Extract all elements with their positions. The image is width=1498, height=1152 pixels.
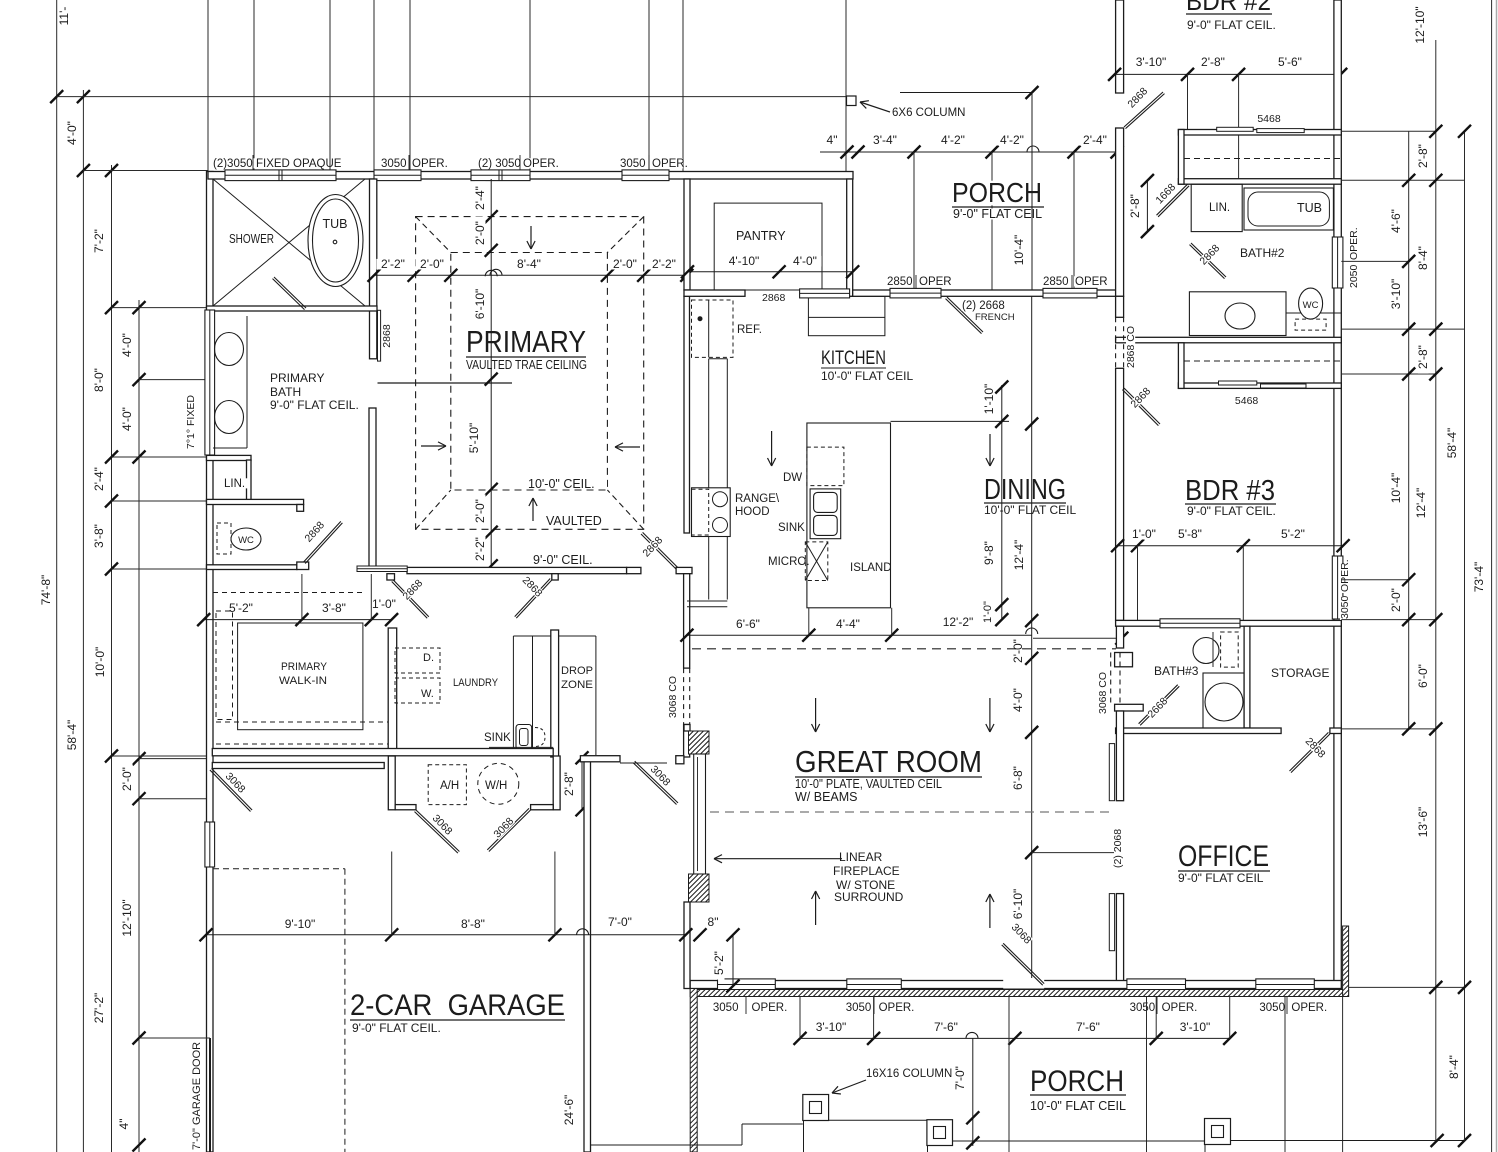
svg-text:2'-8": 2'-8" <box>1201 55 1225 69</box>
svg-text:6'-0": 6'-0" <box>1416 664 1430 688</box>
svg-text:2'-4": 2'-4" <box>92 467 106 491</box>
window label (2)3050 fixed opaque <box>212 158 256 168</box>
svg-text:12'-10": 12'-10" <box>1413 6 1427 43</box>
porch column A <box>803 1095 829 1121</box>
svg-text:SINK: SINK <box>484 732 511 744</box>
svg-text:8'-0": 8'-0" <box>92 368 106 392</box>
office SE hatched pilaster <box>1343 926 1349 997</box>
porch label top <box>951 181 1043 206</box>
great room dashed ceiling line upper <box>692 648 1116 650</box>
breezeway north pier <box>676 756 684 764</box>
dining floor break line <box>891 420 1010 422</box>
svg-text:OPER: OPER <box>1075 276 1108 288</box>
svg-text:REF.: REF. <box>737 324 762 336</box>
svg-text:7'-0" GARAGE DOOR: 7'-0" GARAGE DOOR <box>191 1042 203 1150</box>
bdr3 closet side wall <box>1178 343 1184 389</box>
svg-text:MICRO.: MICRO. <box>768 556 810 568</box>
fireplace hatched pier top <box>689 731 710 754</box>
svg-text:3050: 3050 <box>846 1002 872 1014</box>
great room north dim row <box>687 634 1032 636</box>
svg-text:24'-6": 24'-6" <box>562 1095 576 1126</box>
kitchen arrow <box>771 431 773 466</box>
svg-text:2'-0": 2'-0" <box>420 257 444 271</box>
svg-text:D.: D. <box>423 652 434 664</box>
svg-text:3'-8": 3'-8" <box>92 524 106 548</box>
svg-text:2868: 2868 <box>762 292 786 304</box>
dim 12'-10" <box>122 895 133 941</box>
bdr3 dim row <box>1118 545 1344 547</box>
svg-text:OPER.: OPER. <box>752 1002 788 1014</box>
dim 2'-0" a <box>415 259 448 270</box>
breezeway door 3068 <box>635 761 678 803</box>
refrigerator dashed <box>692 300 734 357</box>
wc room jog <box>297 505 304 512</box>
dim 7'-2" <box>94 224 105 257</box>
svg-text:HOOD: HOOD <box>735 506 770 518</box>
svg-text:OPER.: OPER. <box>1348 227 1360 260</box>
tray corner diagonals <box>416 217 451 253</box>
right dim line 2 <box>1435 40 1437 1141</box>
top window extension lines <box>207 0 209 172</box>
svg-text:SHOWER: SHOWER <box>229 232 274 246</box>
svg-text:OPER.: OPER. <box>523 158 559 170</box>
svg-text:LIN.: LIN. <box>224 478 245 490</box>
svg-text:2'-0": 2'-0" <box>120 767 134 791</box>
wc bottom wall <box>207 565 298 570</box>
west wall pier above fireplace <box>684 725 690 732</box>
svg-text:BATH#3: BATH#3 <box>1154 664 1199 678</box>
window label 3050 oper #2 <box>619 158 645 168</box>
bath3 west wall top <box>1116 626 1123 648</box>
svg-text:6'-10": 6'-10" <box>473 289 487 320</box>
mud vestibule west wall <box>388 756 395 810</box>
laundry sink label <box>483 732 509 742</box>
vaulted label <box>545 516 593 527</box>
garage entry door 3068 <box>212 769 253 811</box>
svg-text:5'-2": 5'-2" <box>1281 527 1305 541</box>
fireplace note <box>838 852 877 863</box>
kitchen north counter <box>808 296 885 335</box>
svg-text:TUB: TUB <box>323 217 348 231</box>
svg-text:PRIMARY: PRIMARY <box>466 324 586 359</box>
pantry label <box>735 231 776 242</box>
lin2 dim 2'-8 <box>1146 181 1148 232</box>
svg-text:3'-4": 3'-4" <box>873 133 897 147</box>
linen closet <box>207 455 252 460</box>
svg-text:3'-8": 3'-8" <box>322 601 346 615</box>
svg-text:PANTRY: PANTRY <box>736 229 786 243</box>
shower room <box>213 179 365 306</box>
svg-text:10'-4": 10'-4" <box>1012 235 1026 266</box>
bdr3 closet rod dashed <box>1184 360 1341 362</box>
svg-text:2'-0": 2'-0" <box>613 257 637 271</box>
wc door 2868 <box>304 521 341 562</box>
office sidelight lower <box>1109 894 1114 951</box>
tray arrows <box>530 226 532 249</box>
storage door 2868 <box>1291 734 1330 773</box>
svg-text:9'-0" FLAT CEIL.: 9'-0" FLAT CEIL. <box>270 398 359 412</box>
pantry south wall <box>684 290 745 296</box>
kitchen window sill north <box>800 289 850 298</box>
tub oval <box>308 195 363 287</box>
svg-text:9'-0" FLAT CEIL.: 9'-0" FLAT CEIL. <box>352 1021 441 1035</box>
svg-text:8'-4": 8'-4" <box>1416 246 1430 270</box>
dim 4'-0" left top <box>67 116 78 149</box>
bdr2 dim extensions <box>1187 74 1189 129</box>
right dim line 3 <box>1464 131 1466 1140</box>
cased opening 3068 CO bath3 <box>1110 653 1112 705</box>
svg-text:3050: 3050 <box>620 158 646 170</box>
bath entry wall line <box>378 382 513 384</box>
bdr3 dim extensions <box>1137 546 1139 621</box>
shower right wall <box>370 179 377 359</box>
svg-text:2'-4": 2'-4" <box>1083 133 1107 147</box>
svg-text:10'-0" PLATE, VAULTED CEIL: 10'-0" PLATE, VAULTED CEIL <box>795 777 942 791</box>
svg-text:OPER: OPER <box>919 276 952 288</box>
svg-text:3'-10": 3'-10" <box>1389 279 1403 310</box>
svg-text:2'-2": 2'-2" <box>381 257 405 271</box>
bath3 sink counter <box>1203 673 1244 730</box>
bath2 vanity <box>1189 292 1286 336</box>
dim 3'-8" <box>94 519 105 552</box>
left margin label 11'-6 remnant <box>59 3 70 30</box>
window 2050 oper east <box>1332 237 1343 288</box>
dining vertical dim 12'-4 etc <box>1031 296 1033 988</box>
dim 4'-0" vanity a <box>122 328 133 361</box>
svg-text:BATH: BATH <box>270 385 301 399</box>
dim 2'-0" b <box>608 259 641 270</box>
bath2 door 2868 <box>1191 243 1226 277</box>
south window office 2 <box>1256 979 1315 990</box>
svg-text:WALK-IN: WALK-IN <box>279 675 327 687</box>
porch column C <box>1205 1119 1231 1145</box>
great room dim extensions <box>808 608 810 635</box>
svg-text:5'-10": 5'-10" <box>467 423 481 454</box>
bath3 label <box>1153 666 1192 677</box>
svg-text:ISLAND: ISLAND <box>850 562 892 574</box>
window 2850 oper left <box>890 288 941 298</box>
hall door to kitchen 2868 <box>641 534 676 569</box>
svg-text:DROP: DROP <box>561 665 593 677</box>
svg-text:10'-4": 10'-4" <box>1389 473 1403 504</box>
window (2)3050 oper <box>471 170 530 181</box>
bdr2 dim row <box>1115 73 1341 75</box>
window 3050 oper east bdr3 <box>1332 556 1343 619</box>
svg-text:9'-8": 9'-8" <box>982 541 996 565</box>
svg-text:9'-0" FLAT CEIL.: 9'-0" FLAT CEIL. <box>1187 504 1276 518</box>
dim 8'-0" <box>94 363 105 396</box>
breezeway stoop <box>591 1144 742 1146</box>
svg-text:GREAT ROOM: GREAT ROOM <box>795 744 982 779</box>
svg-text:7'-0": 7'-0" <box>953 1066 967 1090</box>
svg-text:WC: WC <box>238 535 254 546</box>
svg-text:2868 CO: 2868 CO <box>1125 326 1137 368</box>
primary bedroom label <box>465 328 587 355</box>
svg-text:(2) 2668: (2) 2668 <box>962 300 1005 312</box>
office door label (2)2068 <box>1113 823 1122 869</box>
primary south wall <box>407 567 627 573</box>
svg-text:9'-0" FLAT CEIL: 9'-0" FLAT CEIL <box>953 207 1042 221</box>
svg-text:BATH#2: BATH#2 <box>1240 246 1285 260</box>
range hood label <box>734 493 772 503</box>
walkin label <box>280 662 328 672</box>
bath entry door panel 2868 <box>378 310 381 361</box>
primary bath label <box>269 373 315 384</box>
bdr3 south window <box>1160 619 1240 628</box>
svg-text:7'-6": 7'-6" <box>934 1020 958 1034</box>
svg-text:9'-10": 9'-10" <box>285 917 316 931</box>
shower bottom wall <box>207 306 378 311</box>
dim 2'-2" a <box>376 259 409 270</box>
tray ceiling outer dashed rect <box>416 217 644 530</box>
bath3-office wall <box>1116 728 1282 734</box>
svg-text:6'-8": 6'-8" <box>1011 766 1025 790</box>
bdr2 label <box>1185 0 1272 13</box>
svg-text:LAUNDRY: LAUNDRY <box>453 677 499 689</box>
svg-text:A/H: A/H <box>440 780 459 792</box>
east exterior wall <box>1334 0 1341 996</box>
svg-text:SURROUND: SURROUND <box>834 890 904 904</box>
toilet tank dashed <box>217 523 231 554</box>
left extension line y170 <box>83 170 208 172</box>
porch door 3068 great room <box>1003 978 1044 989</box>
closet door 5468 panels <box>1217 127 1254 131</box>
svg-text:6X6 COLUMN: 6X6 COLUMN <box>892 107 966 119</box>
svg-text:3'-10": 3'-10" <box>1136 55 1167 69</box>
svg-text:9'-0" FLAT CEIL.: 9'-0" FLAT CEIL. <box>1187 18 1276 32</box>
porch beam line <box>57 96 847 98</box>
porch edge C-east <box>1231 1140 1465 1142</box>
svg-text:OPER.: OPER. <box>1162 1002 1198 1014</box>
garage east wall <box>584 756 591 1152</box>
drop zone bench <box>595 636 597 755</box>
svg-text:2-CAR GARAGE: 2-CAR GARAGE <box>350 989 565 1022</box>
bdr3 nw door 2868 <box>1124 388 1160 424</box>
6x6 column label <box>891 107 953 117</box>
svg-text:1'-0": 1'-0" <box>982 601 994 623</box>
dim 2'-8 mudroom <box>581 758 583 810</box>
16x16 column label <box>865 1068 939 1078</box>
kitchen label <box>820 350 887 367</box>
svg-text:8'-8": 8'-8" <box>461 917 485 931</box>
svg-text:1'-0": 1'-0" <box>1132 527 1156 541</box>
cased opening 2868 CO wing west <box>1115 317 1117 368</box>
label 7'-0" garage door <box>192 1052 202 1151</box>
dim 8'-4" <box>512 259 545 270</box>
svg-text:4'-6": 4'-6" <box>1389 209 1403 233</box>
page edge <box>1496 0 1498 1152</box>
dim 2'-2" b <box>647 259 680 270</box>
mud door east 3068 <box>489 810 531 852</box>
porch vertical dim 10'-4" <box>900 92 1032 94</box>
french door (2)2668 <box>947 297 983 332</box>
svg-text:6'-10": 6'-10" <box>1011 889 1025 920</box>
svg-text:WC: WC <box>1303 300 1319 311</box>
svg-text:3050: 3050 <box>1130 1002 1156 1014</box>
drop zone wall <box>551 630 559 757</box>
great room label <box>794 748 983 775</box>
pantry east wall <box>847 179 853 296</box>
dim 2'-4" <box>94 462 105 495</box>
svg-text:FRENCH: FRENCH <box>975 312 1015 323</box>
right margin extension lines <box>1341 130 1436 132</box>
svg-text:9'-0" CEIL.: 9'-0" CEIL. <box>533 553 593 567</box>
right dim line 4 <box>1491 0 1493 1152</box>
lin door 1668 <box>1157 184 1188 215</box>
svg-text:FIREPLACE: FIREPLACE <box>833 864 900 878</box>
svg-text:(2)3050: (2)3050 <box>213 158 253 170</box>
svg-text:5'-8": 5'-8" <box>1178 527 1202 541</box>
porch dim extensions bottom <box>799 997 801 1039</box>
shower door <box>274 277 306 308</box>
microwave dashed with X <box>805 542 828 581</box>
wh unit dashed <box>478 763 519 804</box>
garage north wall <box>212 763 384 769</box>
office west wall lower <box>1116 894 1123 983</box>
porch interior lines <box>1008 997 1010 1152</box>
bath3 toilet <box>1193 638 1219 664</box>
svg-text:PORCH: PORCH <box>952 177 1042 208</box>
range with hood <box>692 488 731 537</box>
vanity sink 1 <box>215 333 244 366</box>
bath3 door 2668 <box>1139 685 1178 724</box>
pantry west wall <box>684 179 690 290</box>
dim 4'-0" vanity b <box>122 402 133 435</box>
dining label <box>983 477 1067 503</box>
window labels south wall <box>712 1002 738 1012</box>
svg-text:RANGE\: RANGE\ <box>735 493 780 505</box>
porch dim extension lines <box>913 152 915 291</box>
dim 2'-4" vert <box>475 181 486 214</box>
office west wall upper <box>1116 711 1123 801</box>
dim 5'-10" vert <box>469 418 480 457</box>
wing west wall mid <box>1116 296 1124 317</box>
dim 2'-0" vert b <box>475 494 486 527</box>
bath2 wc <box>1286 312 1341 314</box>
bdr3 label <box>1184 478 1276 504</box>
svg-text:W/ BEAMS: W/ BEAMS <box>795 790 858 804</box>
right margin top label <box>1415 2 1426 48</box>
svg-text:OPER.: OPER. <box>1291 1002 1327 1014</box>
storage south wall segment <box>1330 728 1341 734</box>
porch vertical dim 7'-0 <box>972 1038 974 1146</box>
mud door west 3068 <box>416 810 459 852</box>
office door dim line <box>1032 852 1114 854</box>
kitchen west wall upper <box>684 296 690 533</box>
svg-text:2850: 2850 <box>887 276 913 288</box>
svg-text:2'-8": 2'-8" <box>562 772 576 796</box>
svg-text:7'-2": 7'-2" <box>92 229 106 253</box>
breezeway west hatched wall <box>690 989 697 1152</box>
linear fireplace box <box>694 754 706 874</box>
pantry shelf outline <box>714 203 822 290</box>
svg-text:10'-0" FLAT CEIL: 10'-0" FLAT CEIL <box>821 369 913 383</box>
hall wall piers east <box>627 567 641 573</box>
svg-text:4'-10": 4'-10" <box>729 254 760 268</box>
svg-text:3068 CO: 3068 CO <box>667 676 679 718</box>
svg-text:2'-0": 2'-0" <box>473 499 487 523</box>
kitchen west counter <box>708 359 710 488</box>
svg-text:3050: 3050 <box>1259 1002 1285 1014</box>
svg-text:W/H: W/H <box>485 780 507 792</box>
svg-text:4": 4" <box>117 1119 131 1130</box>
lin closet bath2 <box>1191 184 1242 231</box>
svg-text:2'-8": 2'-8" <box>1416 345 1430 369</box>
south wall piers <box>387 574 395 580</box>
window label 3050 oper #1 <box>380 158 406 168</box>
svg-text:SINK: SINK <box>778 522 805 534</box>
svg-text:4'-0": 4'-0" <box>65 121 79 145</box>
svg-text:VAULTED TRAE CEILING: VAULTED TRAE CEILING <box>466 358 587 372</box>
south window office 1 <box>1127 979 1186 990</box>
6x6 column <box>847 96 857 106</box>
svg-text:58'-4": 58'-4" <box>1445 428 1459 459</box>
porch door to wing 2868 <box>1124 92 1163 127</box>
laundry label <box>452 678 499 688</box>
office sidelight upper <box>1109 744 1114 801</box>
dim 2'-0" vert <box>475 216 486 249</box>
great room arrows <box>815 698 817 732</box>
svg-text:12'-10": 12'-10" <box>120 899 134 936</box>
dim 27'-2" <box>94 988 105 1027</box>
bdr2 closet south wall <box>1178 179 1341 185</box>
svg-text:ZONE: ZONE <box>561 679 593 691</box>
wc door pier <box>297 562 309 570</box>
laundry sink counter line <box>489 746 553 748</box>
svg-text:OPER.: OPER. <box>652 158 688 170</box>
hall dashed shelf line <box>213 592 365 594</box>
svg-text:2850: 2850 <box>1043 276 1069 288</box>
garage label <box>349 992 566 1018</box>
garage interior dim 24'-6 <box>564 1090 575 1129</box>
walkin dim extensions <box>301 574 303 620</box>
svg-text:2868: 2868 <box>381 324 393 348</box>
right dim line 1 <box>1408 131 1410 729</box>
bath2 label <box>1239 248 1278 259</box>
ref label <box>736 324 762 334</box>
primary dim row horizontal <box>374 274 687 276</box>
fireplace hatched pier bottom <box>689 874 710 902</box>
walkin dim row <box>204 619 392 621</box>
garage dim row <box>206 934 686 936</box>
dim 10'-0" <box>95 642 106 681</box>
svg-text:27'-2": 27'-2" <box>92 993 106 1024</box>
toilet bowl <box>231 528 261 550</box>
svg-text:7°1° FIXED: 7°1° FIXED <box>185 395 197 449</box>
breezeway north wall <box>580 756 620 762</box>
svg-text:4'-0": 4'-0" <box>120 333 134 357</box>
svg-text:DW: DW <box>783 472 802 484</box>
fireplace leader arrow <box>714 858 842 860</box>
walkin shelves dashed <box>216 611 233 720</box>
svg-text:7'-6": 7'-6" <box>1076 1020 1100 1034</box>
svg-text:4'-2": 4'-2" <box>1000 133 1024 147</box>
tray ceiling inner dashed rect <box>451 253 608 491</box>
storage west wall <box>1244 626 1250 728</box>
dim 2'-0" <box>122 762 133 795</box>
shower label <box>228 234 275 245</box>
island <box>807 423 891 608</box>
west wall below fireplace <box>684 902 690 989</box>
svg-text:2'-0": 2'-0" <box>473 221 487 245</box>
svg-text:4": 4" <box>827 133 838 147</box>
laundry D/W boxes <box>395 648 440 673</box>
laundry sink <box>516 725 532 750</box>
storage label <box>1270 668 1316 679</box>
svg-text:KITCHEN: KITCHEN <box>821 348 886 369</box>
great room south wall <box>690 981 1341 989</box>
island label <box>849 562 887 572</box>
